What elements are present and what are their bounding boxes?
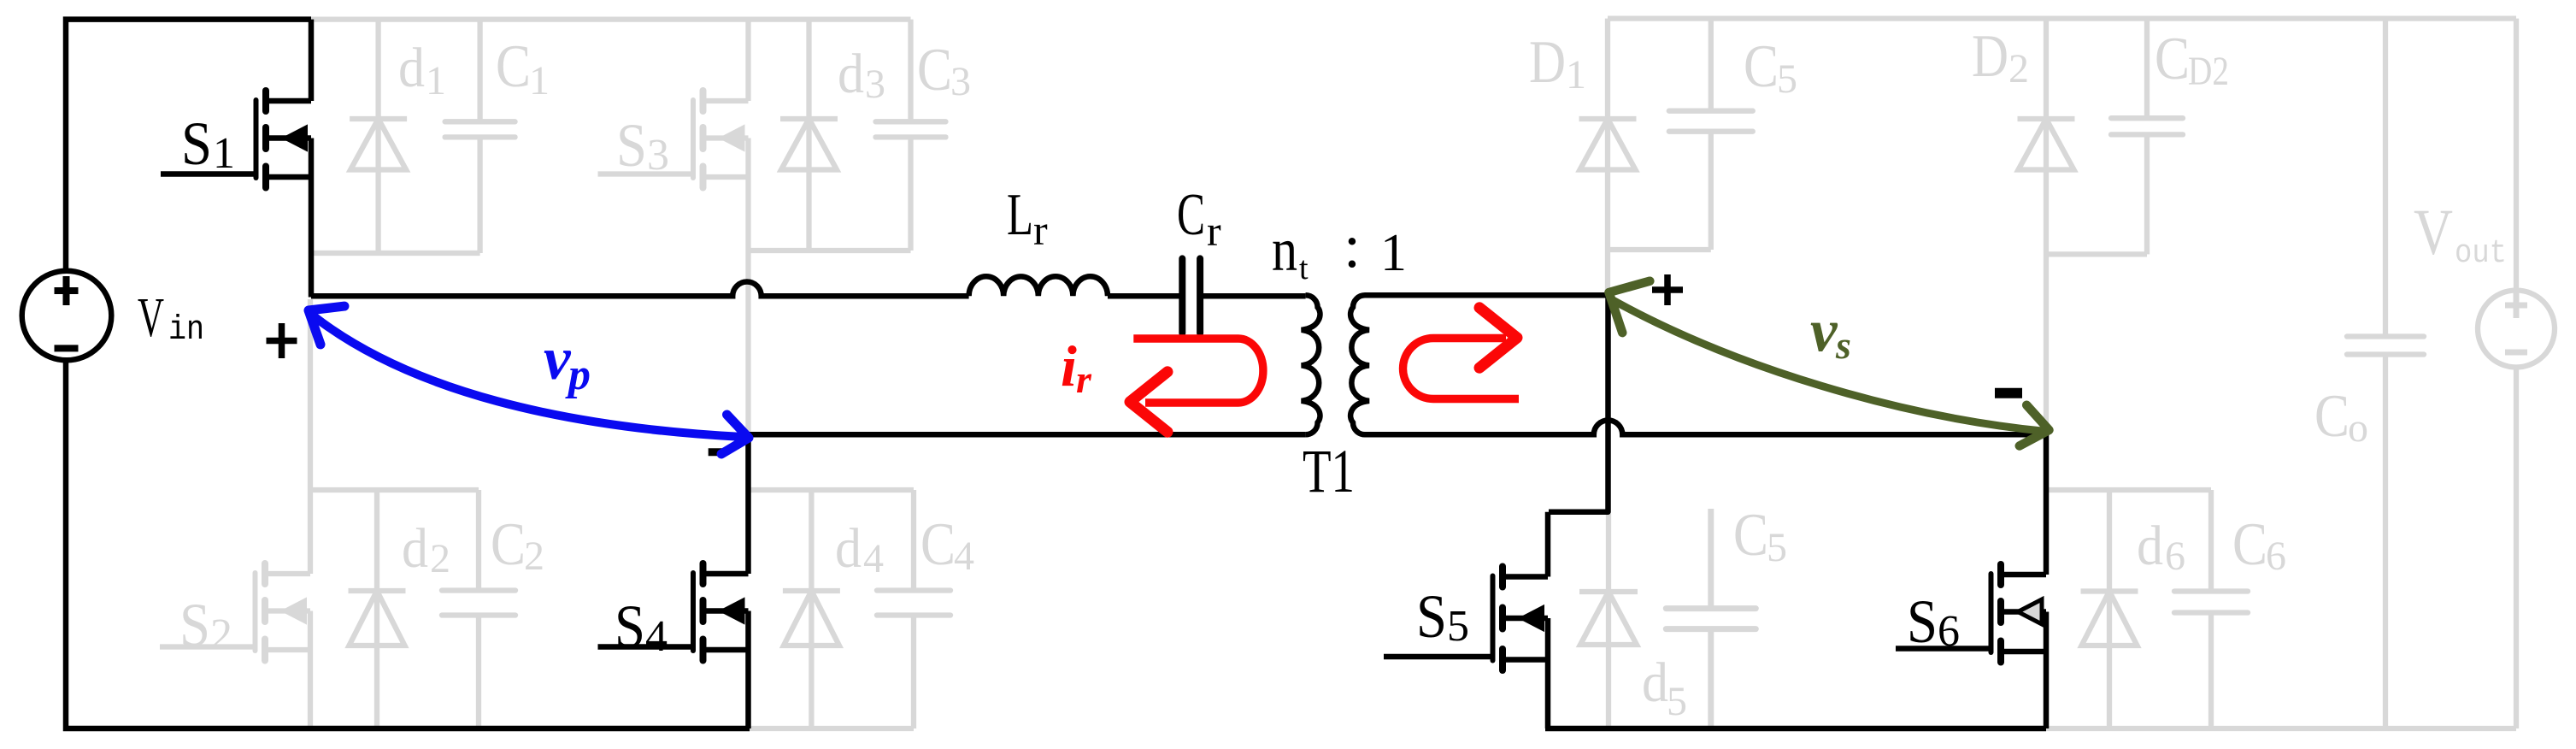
wire Vin bottom to ground rail (66, 360, 750, 728)
minus sign vs- (1995, 388, 2022, 398)
svg-text:2: 2 (524, 534, 544, 579)
svg-text:5: 5 (1767, 525, 1787, 570)
wire gray right rail bottom (2514, 368, 2519, 729)
svg-text:C: C (2314, 383, 2350, 450)
svg-text:D: D (1972, 23, 2008, 90)
diode d1 (350, 20, 407, 253)
wire d1-C1 box bottom (311, 251, 480, 256)
wire d4-C4 box top (749, 487, 915, 492)
svg-text:d: d (1642, 652, 1668, 714)
svg-text:d: d (2137, 515, 2163, 577)
wire D2-CD2 box bottom (2046, 251, 2147, 257)
svg-text:C: C (917, 37, 952, 103)
svg-text:S: S (179, 591, 210, 659)
capacitor C1 (445, 20, 515, 253)
svg-text:5: 5 (1667, 679, 1687, 724)
capacitor CD2 (2111, 19, 2183, 255)
svg-text:S: S (616, 111, 647, 180)
svg-text:6: 6 (2165, 534, 2185, 579)
svg-text:4: 4 (645, 612, 668, 661)
svg-text:V: V (138, 286, 164, 349)
diode d4 (783, 490, 840, 728)
svg-text:6: 6 (1938, 607, 1960, 656)
svg-text:C: C (2155, 26, 2190, 92)
svg-text:r: r (1033, 206, 1048, 254)
arrow vp (blue, node A to node B) (313, 316, 743, 437)
diode d6 (2081, 490, 2138, 728)
transistor S6 (1896, 434, 2046, 728)
diode d3 (780, 20, 838, 251)
transistor S5 (1384, 512, 1548, 728)
plus sign vp+ (267, 323, 297, 358)
svg-text:C: C (491, 511, 526, 578)
svg-text:d: d (402, 517, 428, 580)
svg-text:n: n (1272, 215, 1297, 284)
svg-text:1: 1 (529, 58, 550, 103)
inductor Lr (969, 276, 1108, 296)
svg-text:i: i (1061, 333, 1077, 398)
Vout minus sign (2505, 350, 2527, 356)
diode D1 (1579, 19, 1637, 294)
arrow vs (green, node C to node D) (1613, 300, 2046, 432)
Vin plus sign (55, 276, 79, 305)
wire S5 source to S6 source (bottom rail) (1545, 726, 2046, 732)
svg-text:L: L (1007, 182, 1033, 248)
svg-text:in: in (168, 311, 204, 350)
svg-text:o: o (2348, 405, 2368, 451)
svg-text:s: s (1835, 323, 1851, 367)
diode d2 (349, 490, 406, 728)
minus sign vp- (709, 448, 723, 456)
svg-text:4: 4 (863, 536, 884, 581)
svg-text:S: S (1416, 582, 1447, 651)
arrow ir left loop (red) (1133, 339, 1263, 403)
svg-text:C: C (496, 33, 531, 100)
plus sign vs+ (1652, 274, 1683, 305)
wire node A to Lr with crossover hop (311, 282, 969, 297)
source Vout circle (2478, 291, 2555, 368)
svg-text:D2: D2 (2188, 49, 2229, 94)
diode D2 (2018, 19, 2075, 433)
svg-text:1: 1 (426, 58, 446, 103)
svg-text:t: t (1299, 251, 1309, 286)
svg-text:1: 1 (213, 129, 235, 178)
svg-text:2: 2 (2008, 46, 2029, 91)
svg-text:d: d (838, 43, 864, 105)
svg-text:3: 3 (647, 131, 669, 180)
arrow ir right loop (red) (1403, 339, 1520, 399)
wire Vin to S1 drain (top-left rail) (66, 20, 311, 272)
svg-text:2: 2 (210, 610, 232, 659)
svg-text:d: d (835, 517, 862, 580)
svg-text:r: r (1207, 207, 1221, 255)
capacitor C3 (876, 20, 946, 251)
wire transformer primary bottom to node B (749, 432, 1306, 438)
wire D1-C5 box bottom (1608, 247, 1711, 252)
transformer T1 secondary winding (1350, 295, 1369, 434)
svg-text:p: p (565, 351, 591, 399)
transistor S3 (598, 20, 749, 433)
svg-text:3: 3 (865, 62, 885, 107)
svg-text:C: C (2232, 511, 2267, 578)
wire gray top rail (primary snubber bus) (309, 16, 911, 21)
diode d5 (1579, 514, 1638, 728)
svg-text:T1: T1 (1303, 437, 1355, 505)
capacitor Co (2347, 19, 2424, 728)
svg-text:v: v (1810, 298, 1838, 365)
svg-text:1: 1 (1566, 52, 1586, 97)
source Vin circle (22, 271, 112, 361)
svg-text:r: r (1076, 357, 1092, 401)
svg-text:d: d (398, 37, 425, 99)
svg-text:S: S (181, 109, 212, 178)
svg-text::: : (1344, 212, 1361, 280)
wire Cr to transformer primary (1203, 293, 1306, 299)
svg-text:S: S (1907, 587, 1938, 656)
svg-text:6: 6 (2266, 534, 2286, 579)
Vout plus sign (2505, 292, 2527, 318)
wire d2-C2 box top (310, 487, 479, 492)
svg-text:4: 4 (954, 534, 974, 579)
wire transformer secondary top to node C (1365, 292, 1609, 298)
capacitor C2 (442, 490, 515, 728)
svg-text:out: out (2455, 235, 2507, 272)
wire d4-C4 box bottom (749, 726, 915, 731)
svg-text:V: V (2414, 197, 2453, 268)
capacitor C5 top (1669, 19, 1753, 250)
node C vertical and jog to S5 drain (1549, 293, 1609, 512)
svg-text:S: S (615, 593, 645, 661)
svg-text:5: 5 (1777, 56, 1797, 102)
wire Lr to Cr (1108, 293, 1179, 299)
Vin minus sign (55, 345, 79, 351)
transistor S4 (598, 434, 749, 728)
wire d6-C6 box top (2046, 487, 2211, 492)
svg-text:D: D (1529, 29, 1566, 96)
wire transformer secondary bottom to node D with crossover hop (1365, 421, 2046, 435)
svg-text:5: 5 (1447, 602, 1469, 651)
transistor S1 (161, 20, 311, 298)
transistor S2 (160, 299, 310, 728)
svg-text:1: 1 (1380, 224, 1407, 282)
capacitor C4 (877, 490, 950, 728)
svg-text:C: C (1177, 182, 1205, 248)
svg-text:C: C (1744, 33, 1779, 100)
capacitor Cr (1182, 258, 1200, 333)
svg-text:C: C (920, 511, 956, 578)
wire gray bottom rail (secondary) (2046, 726, 2516, 731)
capacitor C5 bottom (1666, 509, 1756, 728)
transformer T1 primary winding (1302, 295, 1320, 434)
svg-text:2: 2 (430, 536, 450, 581)
wire d3-C3 box bottom (749, 248, 911, 253)
capacitor C6 (2174, 490, 2248, 728)
wire gray right rail top (2514, 19, 2519, 291)
svg-text:3: 3 (950, 59, 971, 104)
wire gray secondary top rail (1608, 15, 2516, 21)
svg-text:C: C (1733, 502, 1768, 569)
